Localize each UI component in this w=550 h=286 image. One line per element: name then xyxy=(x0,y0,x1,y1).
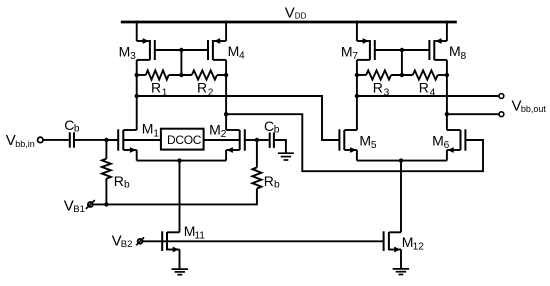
transistor M5 xyxy=(339,129,357,160)
wire VB1 line xyxy=(93,189,257,205)
terminal Vbb,in xyxy=(38,137,43,142)
svg-text:12: 12 xyxy=(413,242,425,253)
label M12 xyxy=(402,234,424,253)
label R3 xyxy=(373,80,390,99)
label Rb left xyxy=(114,173,130,191)
svg-text:C: C xyxy=(264,118,274,134)
port label VB1 xyxy=(64,198,85,215)
wire R3-R4 mid segment xyxy=(391,74,413,76)
transistor M8 xyxy=(429,38,447,60)
svg-text:R: R xyxy=(419,80,429,96)
wire Cb to ground xyxy=(275,140,286,153)
transistor M11 xyxy=(162,231,179,269)
label M7 xyxy=(341,43,359,62)
transistor M2 xyxy=(226,129,257,160)
svg-text:M: M xyxy=(359,132,371,148)
transistor M3 xyxy=(137,38,155,60)
label M11 xyxy=(184,223,206,242)
resistor R4 xyxy=(413,70,438,79)
svg-text:M: M xyxy=(142,121,154,137)
node R4 right junction xyxy=(445,73,449,77)
node tail junction stage 1 xyxy=(177,158,181,162)
label M3 xyxy=(119,43,137,62)
wire VB2 line to M11 and M12 gates xyxy=(143,240,384,242)
label R4 xyxy=(419,80,436,99)
svg-text:V: V xyxy=(285,4,295,21)
wire gate mid to R3/R4 junction xyxy=(401,50,403,75)
svg-text:C: C xyxy=(64,117,74,133)
svg-text:6: 6 xyxy=(444,140,450,151)
wire R4 right segment xyxy=(438,74,447,76)
port label Vbb,in xyxy=(6,132,35,149)
label R1 xyxy=(151,80,168,99)
wire node B to M6 gate (cross-couple 2) xyxy=(226,114,483,171)
ground (M12 source) xyxy=(393,269,410,275)
svg-text:5: 5 xyxy=(371,140,377,151)
label R2 xyxy=(197,80,214,99)
wire M2 gate node to Rb right xyxy=(256,140,258,167)
wire R2 right segment xyxy=(217,74,226,76)
svg-text:M: M xyxy=(119,43,131,59)
wire M2 gate node to Cb xyxy=(257,139,269,141)
node M3/M4 gate mid junction xyxy=(179,48,183,52)
terminal Vbb,out upper xyxy=(499,94,504,99)
wire M1/M2 common source line xyxy=(137,160,226,162)
node output+ junction xyxy=(355,94,359,98)
label M8 xyxy=(449,43,467,62)
wire M8 drain / R4 right node / M6 drain column xyxy=(446,60,448,130)
svg-text:bb,out: bb,out xyxy=(521,104,547,114)
wire M7 source to VDD rail xyxy=(356,21,358,41)
wire M1 gate node to Rb xyxy=(105,140,107,159)
resistor R1 xyxy=(146,70,169,79)
transistor M6 xyxy=(447,129,466,160)
wire gate mid to R1/R2 junction xyxy=(180,50,182,75)
wire DCOC to M2 body xyxy=(204,139,240,141)
terminal VB1 (slash) xyxy=(86,200,95,209)
label M5 xyxy=(359,132,377,151)
svg-text:M: M xyxy=(209,121,221,137)
wire Vbb,in to Cb xyxy=(43,139,69,141)
wire M4 source to VDD rail xyxy=(225,21,227,41)
svg-text:R: R xyxy=(151,80,161,96)
svg-text:8: 8 xyxy=(461,51,467,62)
resistor R3 xyxy=(366,70,391,79)
transistor M1 xyxy=(106,129,136,160)
svg-text:R: R xyxy=(114,173,124,189)
node R1 left junction xyxy=(135,73,139,77)
block DCOC xyxy=(161,129,204,150)
resistor Rb (left) xyxy=(102,159,111,179)
label M4 xyxy=(228,43,245,62)
svg-text:b: b xyxy=(274,179,280,190)
wire R1-R2 mid segment xyxy=(169,74,192,76)
svg-text:1: 1 xyxy=(153,128,159,139)
transistor M12 xyxy=(384,231,401,269)
svg-text:M: M xyxy=(228,43,240,59)
wire M8 source to VDD rail xyxy=(446,21,448,41)
wire R3 row left segment xyxy=(357,74,366,76)
svg-text:M: M xyxy=(449,43,461,59)
wire M7-M8 gate link xyxy=(375,49,430,51)
node M1 gate / Rb junction xyxy=(104,138,108,142)
node M2 gate / Rb / Cb junction xyxy=(255,138,259,142)
svg-text:M: M xyxy=(432,132,444,148)
VDD power rail xyxy=(121,21,457,24)
label Cb input xyxy=(64,117,80,135)
capacitor Cb (input) xyxy=(70,132,74,147)
svg-text:7: 7 xyxy=(352,51,358,62)
node R3/R4 mid junction xyxy=(400,73,404,77)
node B junction on M2 drain column xyxy=(224,112,228,116)
capacitor Cb (M2 gate) xyxy=(270,133,274,148)
resistor Rb (right) xyxy=(252,167,261,188)
svg-text:2: 2 xyxy=(221,129,227,140)
node Rb left / VB1 junction xyxy=(104,202,108,206)
terminal VB2 (slash) xyxy=(136,237,144,245)
svg-text:B2: B2 xyxy=(121,239,133,250)
wire tail stage2 to M12 drain xyxy=(400,161,402,233)
net label VDD xyxy=(285,4,307,21)
port label Vbb,out xyxy=(512,98,547,115)
wire M3 drain / R1 left node / M1 drain column xyxy=(136,60,138,130)
label Cb right xyxy=(264,118,280,136)
svg-text:bb,in: bb,in xyxy=(15,139,35,149)
svg-text:B1: B1 xyxy=(73,204,85,215)
wire node A to M5 gate (cross-couple 1) xyxy=(137,96,340,140)
wire M5/M6 common source line xyxy=(357,160,447,162)
wire output- to terminal xyxy=(447,113,499,115)
svg-text:b: b xyxy=(124,179,130,190)
svg-text:R: R xyxy=(197,80,207,96)
wire M4 drain / R2 right node / M2 drain column xyxy=(225,60,227,130)
transistor M7 xyxy=(357,38,375,60)
svg-text:b: b xyxy=(274,124,280,135)
node R3 left junction xyxy=(355,73,359,77)
label M6 xyxy=(432,132,450,151)
ground (M11 source) xyxy=(172,269,189,275)
port label VB2 xyxy=(112,233,133,250)
label M1 xyxy=(142,121,160,140)
resistor R2 xyxy=(192,70,217,79)
svg-text:4: 4 xyxy=(239,51,245,62)
label M2 xyxy=(209,121,227,140)
label Rb right xyxy=(264,173,280,191)
node A junction on M3 drain column xyxy=(135,94,139,98)
svg-text:11: 11 xyxy=(194,231,205,242)
svg-text:b: b xyxy=(74,123,80,134)
wire R1 row left segment xyxy=(137,74,146,76)
wire M3-M4 gate link xyxy=(155,49,208,51)
svg-text:M: M xyxy=(341,43,353,59)
svg-text:R: R xyxy=(373,80,383,96)
wire tail stage1 to M11 drain xyxy=(179,161,181,233)
wire output+ to terminal xyxy=(357,95,499,97)
transistor M4 xyxy=(208,38,226,60)
svg-text:R: R xyxy=(264,173,274,189)
node output- junction xyxy=(445,112,449,116)
node R2 right junction xyxy=(224,73,228,77)
node R1/R2 mid junction xyxy=(179,73,183,77)
node M7/M8 gate mid junction xyxy=(400,48,404,52)
wire Rb to VB1 rail xyxy=(105,179,107,205)
ground (Cb bypass) xyxy=(278,153,294,160)
wire M7 drain / R3 left node / M5 drain column xyxy=(356,60,358,130)
svg-text:3: 3 xyxy=(130,51,136,62)
node tail junction stage 2 xyxy=(399,158,403,162)
wire Cb to M1 gate xyxy=(75,139,118,141)
wire M3 source to VDD rail xyxy=(136,21,138,41)
svg-text:DCOC: DCOC xyxy=(167,133,202,147)
terminal Vbb,out lower xyxy=(499,112,504,117)
wire M1 body to DCOC xyxy=(123,139,161,141)
svg-text:DD: DD xyxy=(295,11,307,20)
